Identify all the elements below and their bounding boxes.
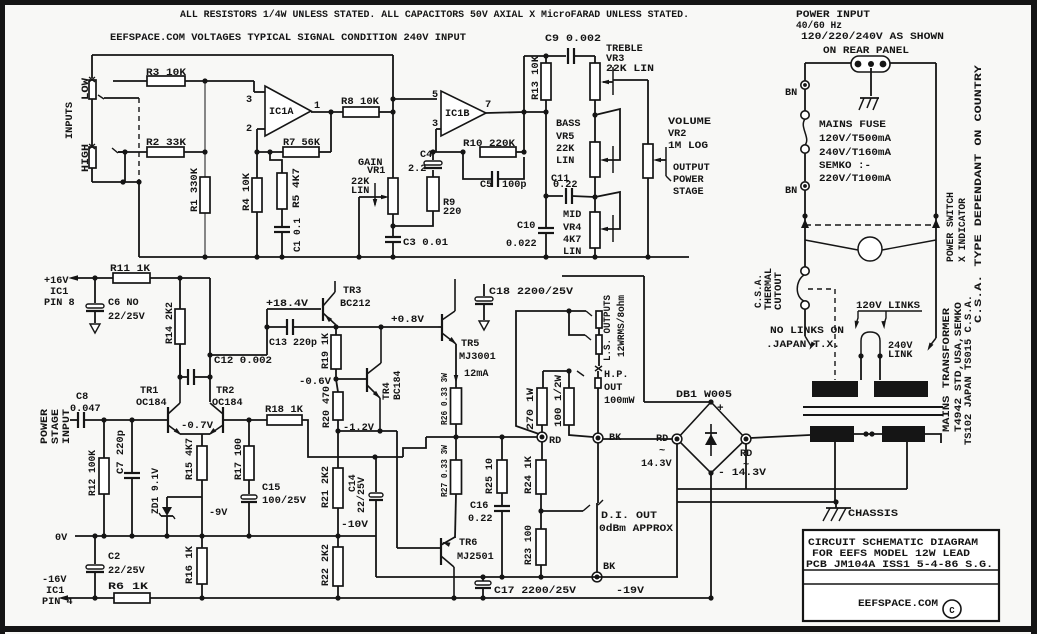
svg-text:3: 3: [246, 95, 252, 106]
svg-text:C16: C16: [470, 501, 488, 512]
capacitor C17 2200/25V: [475, 577, 577, 601]
label MAINS TRANSFORMER: [941, 308, 952, 432]
resistor R18 1K: [249, 405, 403, 460]
svg-text:.JAPAN T.X.: .JAPAN T.X.: [766, 339, 840, 350]
label fuse 240V: [819, 147, 891, 158]
svg-text:C4: C4: [420, 150, 432, 161]
label 40/60 Hz: [796, 20, 842, 32]
wire LOW contact: [98, 95, 139, 99]
capacitor C5 100p: [463, 152, 526, 191]
svg-text:C5: C5: [480, 180, 492, 191]
svg-text:R6 1K: R6 1K: [108, 582, 149, 593]
resistor R14 2K2: [164, 278, 185, 377]
svg-text:C7 220p: C7 220p: [115, 430, 126, 474]
svg-text:2.2: 2.2: [408, 164, 426, 175]
svg-text:CHASSIS: CHASSIS: [848, 508, 898, 520]
wire to IC1B pin5: [393, 98, 437, 100]
svg-text:C17 2200/25V: C17 2200/25V: [494, 585, 577, 597]
svg-text:4K7: 4K7: [563, 235, 581, 246]
transformer primary right: [874, 381, 928, 397]
label POWER STAGE INPUT: [39, 409, 72, 444]
svg-text:12WRMS/8ohm: 12WRMS/8ohm: [616, 295, 627, 357]
node C4/R10: [430, 149, 465, 154]
capacitor C14 22/25V: [347, 457, 383, 536]
transistor TR3 BC212: [323, 281, 371, 325]
wire TR2 collector line: [209, 278, 211, 402]
svg-text:22/25V: 22/25V: [108, 311, 146, 323]
svg-text:R23 100: R23 100: [523, 525, 534, 565]
capacitor C4 2.2: [408, 150, 442, 175]
svg-text:L.S. OUTPUTS: L.S. OUTPUTS: [602, 295, 613, 361]
label OUTPUT POWER STAGE: [673, 163, 710, 198]
svg-text:TR5: TR5: [461, 339, 479, 350]
wire treble-bass chain: [592, 100, 597, 142]
svg-text:C3 0.01: C3 0.01: [403, 238, 448, 249]
label -1.2V: [343, 423, 375, 434]
wire supply rail top: [562, 275, 644, 277]
svg-text:~: ~: [659, 445, 665, 457]
svg-text:SEMKO :-: SEMKO :-: [819, 160, 871, 171]
node R3 output: [202, 78, 207, 83]
wire LS link: [569, 311, 591, 340]
jack HIGH input: [89, 144, 96, 168]
wire AC loop lower: [677, 501, 836, 503]
transformer core: [803, 407, 943, 415]
label fuse SEMKO: [819, 160, 871, 171]
label transformer types1: [953, 302, 964, 432]
wire 0V rail: [55, 533, 376, 544]
label +18.4V: [266, 299, 309, 310]
terminal BN upper: [785, 81, 809, 99]
svg-text:22/25V: 22/25V: [356, 477, 367, 513]
pot VR4 mid: [590, 212, 600, 248]
svg-text:0.022: 0.022: [506, 239, 537, 250]
wire LOW to HIGH: [91, 99, 93, 146]
resistor R8 10K: [341, 97, 396, 117]
svg-text:40/60 Hz: 40/60 Hz: [796, 20, 842, 32]
label LOW: [81, 77, 92, 100]
label fuse 120V: [819, 133, 891, 144]
title line 2: [812, 548, 970, 560]
label -19V: [616, 586, 645, 597]
svg-text:R27 0.33 3W: R27 0.33 3W: [439, 445, 450, 497]
svg-text:VR2: VR2: [668, 129, 686, 140]
transistor TR1 OC184: [136, 344, 183, 437]
label POWER INPUT: [796, 10, 870, 21]
svg-text:C18 2200/25V: C18 2200/25V: [489, 286, 574, 298]
svg-text:BC212: BC212: [340, 299, 371, 310]
svg-text:DB1 W005: DB1 W005: [676, 390, 732, 401]
svg-text:240V/T160mA: 240V/T160mA: [819, 147, 891, 158]
resistor R27 0.33 3W: [439, 437, 462, 538]
svg-text:H.P.: H.P.: [604, 370, 628, 381]
resistor R9 220: [393, 170, 461, 226]
wire speaker rail: [426, 434, 538, 439]
svg-text:POWER: POWER: [673, 175, 704, 186]
op-amp IC1B: [441, 91, 486, 136]
wire 0V jog down: [375, 536, 377, 577]
title line 3: [806, 559, 993, 571]
svg-text:OC184: OC184: [136, 398, 167, 409]
svg-text:C13 220p: C13 220p: [269, 338, 317, 349]
wire secondary right lead: [925, 434, 941, 443]
svg-text:C12 0.002: C12 0.002: [214, 356, 272, 367]
resistor R24 1K: [523, 442, 546, 514]
svg-text:5: 5: [432, 90, 438, 101]
wire AC loop upper: [677, 488, 907, 490]
svg-text:-19V: -19V: [616, 586, 645, 597]
wire HIGH contact: [112, 148, 128, 182]
wire volume wiper: [653, 147, 671, 181]
svg-text:-0.7V: -0.7V: [181, 421, 214, 432]
resistor R15 4K7: [184, 438, 207, 539]
transistor TR5 MJ3001: [438, 279, 496, 363]
svg-text:-10V: -10V: [341, 520, 369, 531]
wire rail left end: [138, 182, 140, 257]
svg-text:POWER SWITCH: POWER SWITCH: [945, 192, 956, 262]
wire primary left tap: [805, 309, 815, 351]
wire secondary left down: [834, 442, 836, 502]
label voltages as shown: [801, 31, 944, 43]
resistor 270 1W: [525, 371, 547, 432]
svg-text:100 1/2W: 100 1/2W: [553, 375, 564, 427]
svg-text:-9V: -9V: [209, 508, 228, 519]
svg-text:POWER INPUT: POWER INPUT: [796, 10, 870, 21]
jack LOW input: [89, 77, 96, 99]
svg-text:BN: BN: [785, 186, 797, 197]
wire +18.4V branch: [207, 309, 269, 358]
svg-text:ZD1 9.1V: ZD1 9.1V: [150, 468, 161, 514]
svg-text:22K: 22K: [556, 144, 575, 155]
svg-text:D.I. OUT: D.I. OUT: [601, 511, 657, 522]
svg-text:100p: 100p: [502, 180, 526, 191]
resistor R19 1K: [320, 327, 341, 382]
svg-text:VR4: VR4: [563, 223, 581, 234]
svg-text:TR3: TR3: [343, 286, 361, 297]
svg-text:PCB JM104A ISS1 5-4-86 S.G.: PCB JM104A ISS1 5-4-86 S.G.: [806, 559, 993, 571]
terminal BK bottom: [592, 562, 616, 582]
wire link arrows: [853, 311, 886, 329]
bridge DB1 W005 body: [676, 390, 746, 473]
svg-text:EEFSPACE.COM VOLTAGES TYPICAL: EEFSPACE.COM VOLTAGES TYPICAL SIGNAL CON…: [110, 33, 466, 44]
svg-text:R25 10: R25 10: [484, 458, 495, 494]
pot VR2 volume: [643, 144, 653, 178]
svg-text:0.22: 0.22: [468, 514, 492, 525]
svg-text:100mW: 100mW: [604, 396, 635, 407]
resistor R5 4K7: [267, 149, 302, 226]
wire mains live: [805, 63, 851, 81]
terminal bridge AC right: [718, 434, 767, 479]
wire zener branch: [167, 497, 202, 507]
svg-text:R20 470: R20 470: [321, 386, 332, 428]
switch linkage dashed: [801, 219, 940, 228]
fuse mains: [801, 89, 809, 153]
title line 1: [808, 537, 978, 549]
resistor R12 100K: [87, 420, 109, 539]
svg-text:C1 0.1: C1 0.1: [292, 218, 303, 252]
label TREBLE VR3: [606, 44, 654, 75]
svg-text:C: C: [949, 606, 955, 616]
svg-text:+: +: [717, 403, 724, 415]
svg-text:1: 1: [314, 101, 320, 112]
wire switch left: [802, 190, 807, 267]
resistor R7 56K: [257, 112, 331, 157]
terminal bridge AC left: [641, 434, 682, 470]
resistor R6 1K: [108, 582, 711, 603]
label HIGH: [81, 144, 92, 172]
pin 6 IC1B: [432, 119, 441, 152]
jack HP out: [595, 366, 635, 433]
svg-text:OUTPUT: OUTPUT: [673, 163, 710, 174]
svg-text:220: 220: [443, 207, 461, 218]
capacitor C10 0.022: [506, 221, 554, 260]
svg-text:R5 4K7: R5 4K7: [291, 168, 302, 208]
label 12mA: [454, 344, 490, 388]
svg-text:BASS: BASS: [556, 119, 580, 130]
earth symbol: [859, 68, 879, 110]
svg-text:BN: BN: [785, 88, 797, 99]
svg-text:R26 0.33 3W: R26 0.33 3W: [439, 373, 450, 425]
resistor R13 10K: [530, 56, 551, 227]
svg-text:R13 10K: R13 10K: [530, 56, 541, 100]
svg-text:R16 1K: R16 1K: [184, 546, 195, 584]
svg-text:1M LOG: 1M LOG: [668, 141, 708, 152]
label VOLUME VR2: [668, 117, 711, 152]
transistor TR6 MJ2501: [397, 537, 494, 601]
transformer primary left: [812, 381, 858, 397]
pin 1 IC1A: [311, 101, 343, 115]
svg-text:7: 7: [485, 99, 491, 111]
capacitor C9 0.002: [545, 34, 601, 64]
svg-text:2: 2: [246, 124, 252, 135]
wire mid wiper link: [595, 192, 620, 242]
resistor R2 33K: [118, 138, 208, 157]
capacitor C6 22/25V: [86, 278, 146, 333]
svg-text:VR1: VR1: [367, 166, 385, 177]
note: voltages condition: [110, 33, 466, 44]
svg-text:100/25V: 100/25V: [262, 495, 307, 507]
label BASS VR5: [556, 119, 580, 167]
svg-text:R24 1K: R24 1K: [523, 456, 534, 494]
wire bridge AC right down: [745, 443, 747, 489]
capacitor C7 220p: [115, 420, 140, 539]
capacitor C11 0.22: [543, 174, 595, 204]
wire to volume pot: [647, 80, 649, 144]
capacitor C2 22/25V: [86, 533, 146, 600]
svg-text:ALL RESISTORS 1/4W UNLESS STAT: ALL RESISTORS 1/4W UNLESS STATED. ALL CA…: [180, 9, 689, 21]
svg-text:STAGE: STAGE: [673, 187, 704, 198]
svg-text:-1.2V: -1.2V: [343, 423, 375, 434]
svg-text:14.3V: 14.3V: [641, 459, 672, 470]
resistor R10 220K: [463, 139, 527, 157]
svg-text:MAINS TRANSFORMER: MAINS TRANSFORMER: [941, 308, 952, 432]
pot VR1: [388, 178, 398, 214]
terminal BK headphone: [593, 433, 672, 444]
svg-text:R17 100: R17 100: [233, 438, 244, 480]
label MID VR4: [563, 210, 581, 258]
resistor R17 100: [233, 420, 254, 494]
label -0.6V: [299, 377, 332, 388]
pot VR3 treble: [590, 56, 600, 100]
label 240V LINK: [888, 341, 913, 361]
capacitor C18 2200/25V: [475, 284, 574, 330]
wire speaker feed: [516, 308, 592, 434]
wire rail to bridge: [643, 276, 645, 402]
svg-text:IC1B: IC1B: [445, 109, 469, 120]
svg-text:LIN: LIN: [556, 156, 574, 167]
wire DI out: [541, 505, 590, 511]
svg-text:C10: C10: [517, 221, 535, 232]
resistor R4 10K: [241, 152, 262, 260]
copyright symbol: [943, 600, 961, 618]
title eefspace: [858, 598, 938, 610]
label D.I. OUT: [599, 511, 674, 535]
resistor R3 10K: [113, 68, 254, 86]
svg-text:TR1: TR1: [140, 386, 158, 397]
svg-text:NO LINKS ON: NO LINKS ON: [770, 325, 844, 336]
svg-text:IC1: IC1: [46, 586, 64, 597]
label -10V: [341, 520, 369, 531]
svg-text:MAINS FUSE: MAINS FUSE: [819, 120, 886, 131]
svg-text:0dBm APPROX: 0dBm APPROX: [599, 523, 674, 535]
resistor R1 330K: [189, 81, 210, 260]
label X INDICATOR: [957, 198, 968, 262]
label CSA type dependant: [973, 65, 984, 323]
svg-text:TR6: TR6: [459, 538, 477, 549]
svg-text:VR5: VR5: [556, 132, 574, 143]
svg-text:C8: C8: [76, 392, 88, 403]
svg-text:STAGE: STAGE: [50, 409, 61, 444]
svg-text:C6 NO: C6 NO: [108, 298, 139, 309]
capacitor C8 0.047: [70, 392, 167, 428]
svg-text:IC1: IC1: [50, 287, 68, 298]
label -0.7V: [181, 421, 214, 432]
wire TR3 base: [267, 308, 321, 310]
svg-text:R1 330K: R1 330K: [189, 168, 200, 212]
wire bass-mid chain: [592, 177, 597, 212]
wire cutout dashed link: [808, 289, 835, 380]
wire bridge AC left down: [676, 443, 678, 577]
wire VR1 bottom: [390, 214, 395, 229]
svg-text:12mA: 12mA: [464, 369, 489, 380]
wire bridge minus: [708, 470, 713, 600]
wire top rail to tone: [524, 53, 566, 58]
svg-text:VOLUME: VOLUME: [668, 117, 711, 128]
wire +16V rail: [68, 275, 113, 280]
svg-text:LIN: LIN: [351, 186, 369, 197]
resistor R11 1K: [110, 264, 210, 283]
resistor R22 2K2: [320, 536, 343, 601]
wire AC to secondary: [750, 435, 810, 438]
svg-text:+16V: +16V: [44, 276, 69, 287]
label GAIN VR1: [351, 158, 385, 197]
pin 2 IC1A: [246, 124, 265, 155]
svg-text:OC184: OC184: [212, 398, 243, 409]
label -16V IC1 PIN 4: [42, 575, 73, 608]
label on rear panel: [823, 46, 909, 57]
wire volume bottom: [645, 178, 650, 260]
svg-text:TR4: TR4: [381, 382, 392, 400]
label transformer types2: [963, 295, 974, 445]
svg-text:OUT: OUT: [604, 383, 622, 394]
wire output to feedback: [523, 56, 525, 152]
svg-text:LINK: LINK: [888, 350, 913, 361]
svg-text:PIN 8: PIN 8: [44, 298, 75, 309]
svg-text:- 14.3V: - 14.3V: [718, 468, 767, 479]
wire mains neutral: [890, 63, 939, 219]
svg-text:22/25V: 22/25V: [108, 565, 146, 577]
capacitor C3 0.01: [385, 226, 448, 260]
wire dashed input link: [138, 98, 140, 182]
label MAINS FUSE: [819, 120, 886, 131]
svg-text:R12 100K: R12 100K: [87, 450, 98, 496]
link 240V: [858, 332, 882, 380]
svg-text:MJ3001: MJ3001: [459, 352, 496, 363]
svg-text:120V/T500mA: 120V/T500mA: [819, 133, 891, 144]
svg-text:INPUTS: INPUTS: [65, 102, 76, 139]
pin 3 IC1A: [246, 81, 265, 106]
label +16V IC1 PIN 8: [44, 276, 75, 309]
wire mid bottom: [592, 248, 597, 260]
svg-text:MJ2501: MJ2501: [457, 552, 494, 563]
wire R8 node to VR1: [390, 96, 395, 178]
wire primary right tap: [925, 338, 936, 352]
svg-text:C15: C15: [262, 483, 280, 494]
svg-text:BC184: BC184: [392, 370, 403, 400]
svg-text:EEFSPACE.COM: EEFSPACE.COM: [858, 598, 938, 610]
resistor R16 1K: [184, 536, 207, 601]
connector power inlet: [851, 56, 890, 72]
resistor 100 1/2W: [553, 371, 593, 437]
svg-text:270 1W: 270 1W: [525, 388, 536, 430]
svg-text:120/220/240V AS SHOWN: 120/220/240V AS SHOWN: [801, 31, 944, 43]
svg-text:C9 0.002: C9 0.002: [545, 34, 601, 45]
wire preamp ground rail: [139, 256, 689, 258]
resistor R23 100: [523, 511, 546, 580]
lamp indicator: [805, 216, 936, 338]
svg-text:R22 2K2: R22 2K2: [320, 544, 331, 586]
wire TR4 emitter node: [338, 430, 397, 432]
svg-text:R14 2K2: R14 2K2: [164, 302, 175, 344]
svg-text:RD: RD: [549, 436, 561, 447]
transformer secondary left: [810, 426, 854, 442]
wire emitter bus: [180, 434, 210, 446]
chassis ground: [823, 499, 898, 521]
svg-text:+0.8V: +0.8V: [391, 315, 425, 326]
svg-text:X INDICATOR: X INDICATOR: [957, 198, 968, 262]
wire to TR6 base: [396, 431, 398, 548]
zener ZD1 9.1V: [150, 468, 175, 539]
svg-text:-16V: -16V: [42, 575, 67, 586]
svg-text:BK: BK: [603, 562, 616, 573]
wire top-left bias rail: [92, 55, 393, 99]
label fuse 220V: [819, 173, 891, 184]
pin 7 IC1B: [485, 99, 549, 115]
svg-text:POWER: POWER: [39, 409, 50, 444]
note: resistor/capacitor units: [180, 9, 689, 21]
svg-text:R4 10K: R4 10K: [241, 173, 252, 211]
svg-text:R15 4K7: R15 4K7: [184, 438, 195, 480]
capacitor C12 0.002: [177, 356, 272, 385]
title block frame: [803, 530, 999, 621]
wire treble wiper: [601, 67, 648, 95]
transformer secondary right: [882, 426, 925, 442]
svg-text:0V: 0V: [55, 533, 68, 544]
label POWER SWITCH: [945, 192, 956, 262]
svg-text:C.S.A. TYPE DEPENDANT ON COUNT: C.S.A. TYPE DEPENDANT ON COUNTRY: [973, 65, 984, 323]
resistor R21 2K2: [320, 431, 343, 539]
resistor R20 470: [321, 379, 343, 434]
